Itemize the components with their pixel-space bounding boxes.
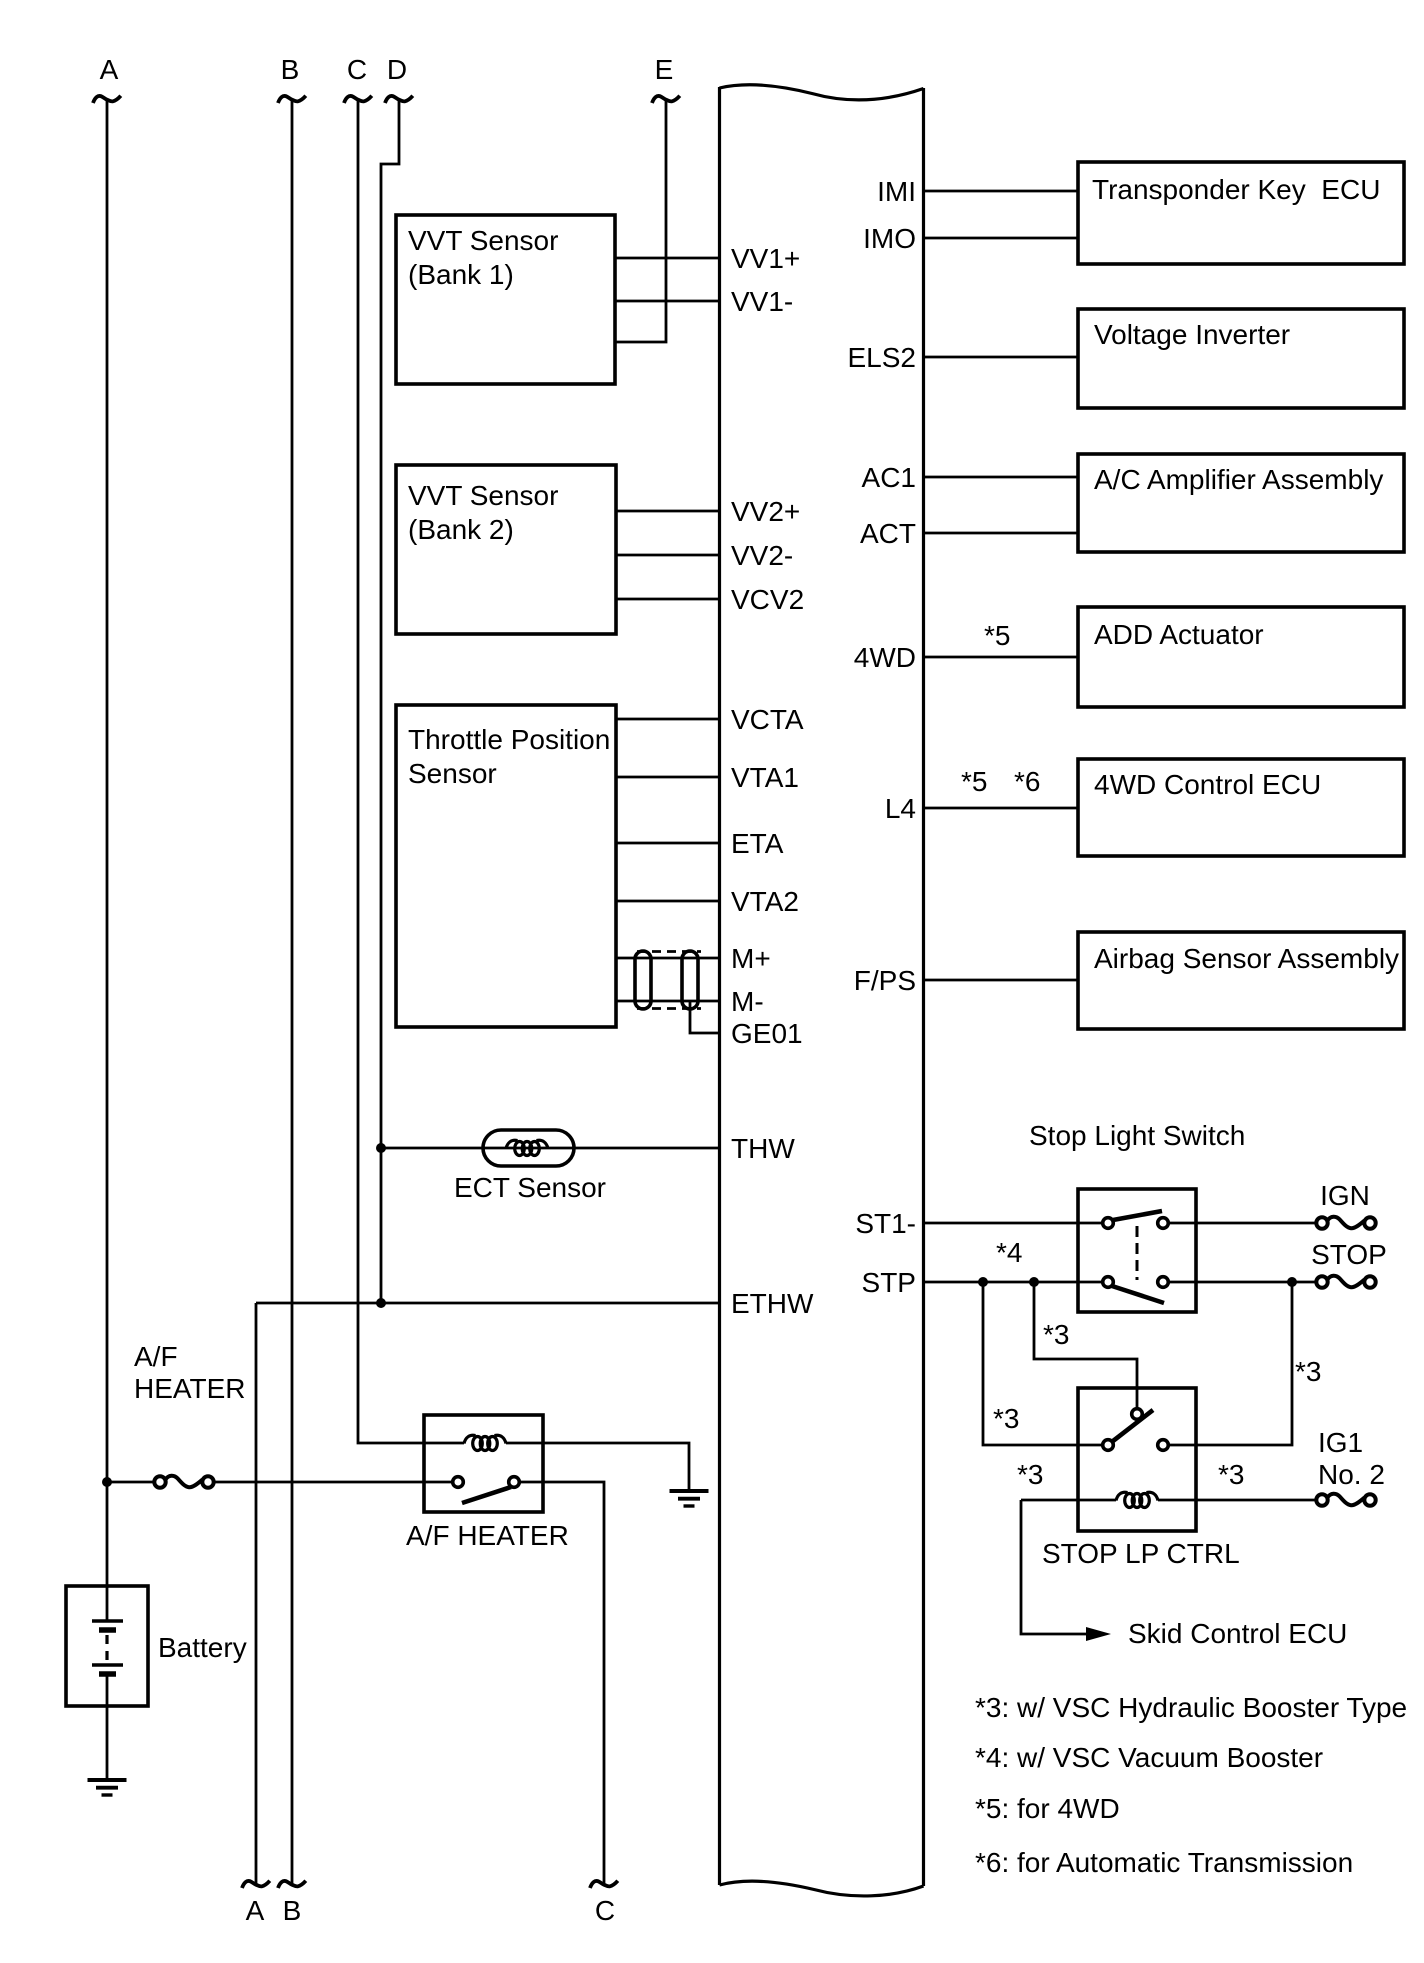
switch blade upper	[1113, 1211, 1162, 1220]
wire A vertical (to battery)	[106, 99, 109, 1621]
svg-text:*3: w/ VSC Hydraulic Booster T: *3: w/ VSC Hydraulic Booster Type	[975, 1692, 1407, 1723]
svg-text:4WD: 4WD	[854, 642, 916, 673]
wire D vertical with jog, down to ETHW junction	[381, 99, 399, 1303]
Stop Light Switch box	[1078, 1189, 1196, 1312]
Transponder Key ECU box	[1078, 162, 1404, 264]
wire B break symbol (bottom)	[278, 1881, 306, 1888]
battery plate short top	[99, 1627, 116, 1633]
wire ACT	[923, 532, 1078, 535]
svg-text:*3: *3	[1043, 1319, 1069, 1350]
wire VV1-	[615, 300, 719, 303]
wire AC1	[923, 476, 1078, 479]
noise filter bead 1	[635, 951, 651, 1009]
svg-text:4WD Control ECU: 4WD Control ECU	[1094, 769, 1321, 800]
relay contact top	[1132, 1409, 1143, 1420]
svg-text:*4: *4	[996, 1237, 1022, 1268]
svg-text:*5: *5	[984, 620, 1010, 651]
svg-text:E: E	[655, 54, 674, 85]
svg-text:(Bank 1): (Bank 1)	[408, 259, 514, 290]
svg-text:ACT: ACT	[860, 518, 916, 549]
svg-text:AC1: AC1	[862, 462, 916, 493]
ground (battery)	[88, 1780, 127, 1795]
svg-text:Transponder Key ECU: Transponder Key ECU	[1092, 174, 1380, 205]
svg-text:VV1+: VV1+	[731, 243, 800, 274]
svg-text:IGN: IGN	[1320, 1180, 1370, 1211]
svg-text:L4: L4	[885, 793, 916, 824]
STOP break symbol	[1316, 1276, 1375, 1288]
svg-text:*3: *3	[993, 1403, 1019, 1434]
svg-text:Battery: Battery	[158, 1632, 247, 1663]
junction THW/D	[376, 1143, 386, 1153]
ECU band torn top edge	[720, 85, 924, 100]
wire C vertical to A/F heater relay coil	[358, 99, 464, 1443]
ground (A/F heater relay)	[670, 1491, 709, 1506]
ECU band left edge	[718, 87, 721, 1885]
svg-text:ELS2: ELS2	[848, 342, 917, 373]
wire VV2+	[616, 510, 719, 513]
VVT Sensor (Bank 1) box	[396, 215, 615, 384]
wire relay switch to C branch	[520, 1482, 604, 1884]
wire A break symbol (bottom)	[242, 1881, 270, 1888]
svg-text:ADD Actuator: ADD Actuator	[1094, 619, 1264, 650]
battery plate long bottom	[92, 1663, 123, 1667]
junction A wire / fuse line	[102, 1477, 112, 1487]
svg-text:*6: *6	[1014, 766, 1040, 797]
wire D break symbol (top)	[385, 96, 413, 103]
wire VTA2	[616, 900, 719, 903]
svg-text:THW: THW	[731, 1133, 795, 1164]
wire from A wire to fuse	[107, 1481, 154, 1484]
switch blade lower	[1112, 1286, 1164, 1303]
Throttle Position Sensor box	[396, 705, 616, 1027]
wire A branch vertical (bottom)	[255, 1303, 258, 1884]
svg-text:VV2+: VV2+	[731, 496, 800, 527]
svg-text:A/C Amplifier Assembly: A/C Amplifier Assembly	[1094, 464, 1383, 495]
svg-text:IMI: IMI	[877, 176, 916, 207]
svg-text:Airbag Sensor Assembly: Airbag Sensor Assembly	[1094, 943, 1399, 974]
wire THW from D wire to ECU	[381, 1147, 719, 1150]
fuse A/F HEATER	[154, 1476, 213, 1488]
svg-text:VVT Sensor: VVT Sensor	[408, 225, 558, 256]
Battery box	[66, 1586, 148, 1706]
wire M+	[616, 957, 719, 960]
wire VV2-	[616, 554, 719, 557]
junction STP branch 2	[1029, 1277, 1039, 1287]
junction ETHW/D	[376, 1298, 386, 1308]
wire IMO	[923, 237, 1078, 240]
relay coil wire left	[1021, 1499, 1116, 1502]
svg-text:*6: for Automatic Transmission: *6: for Automatic Transmission	[975, 1847, 1353, 1878]
svg-text:C: C	[595, 1895, 615, 1926]
svg-text:VV2-: VV2-	[731, 540, 793, 571]
wire IGN from switch	[1169, 1222, 1316, 1225]
wire from fuse to relay switch	[214, 1481, 452, 1484]
svg-text:B: B	[281, 54, 300, 85]
battery dashed middle	[105, 1635, 108, 1662]
svg-text:IG1: IG1	[1318, 1427, 1363, 1458]
A/F HEATER relay coil	[464, 1435, 506, 1450]
wire A break symbol (top)	[93, 96, 121, 103]
wire STP branch1 to relay switch left	[983, 1282, 1102, 1445]
svg-text:HEATER: HEATER	[134, 1373, 246, 1404]
wire B break symbol (top)	[278, 96, 306, 103]
relay blade	[1113, 1410, 1153, 1441]
svg-text:STP: STP	[862, 1267, 916, 1298]
wire relay coil to ground	[506, 1443, 689, 1489]
battery plate long top	[92, 1619, 123, 1623]
Airbag Sensor Assembly box	[1078, 932, 1404, 1029]
svg-text:M-: M-	[731, 986, 764, 1017]
A/C Amplifier Assembly box	[1078, 454, 1404, 552]
4WD Control ECU box	[1078, 759, 1404, 856]
wire E vertical to VVT sensor stub	[615, 99, 666, 342]
relay contact right	[1158, 1440, 1169, 1451]
junction STOP branch	[1287, 1277, 1297, 1287]
relay switch blade	[462, 1487, 511, 1503]
svg-text:A: A	[246, 1895, 265, 1926]
svg-text:VVT Sensor: VVT Sensor	[408, 480, 558, 511]
svg-text:B: B	[283, 1895, 302, 1926]
wire ELS2	[923, 356, 1078, 359]
svg-text:(Bank 2): (Bank 2)	[408, 514, 514, 545]
svg-text:VTA2: VTA2	[731, 886, 799, 917]
IG1 No.2 break symbol	[1316, 1494, 1375, 1506]
wire ETHW from A branch to ECU	[256, 1302, 719, 1305]
wire VTA1	[616, 776, 719, 779]
switch contact lower left	[1103, 1277, 1114, 1288]
svg-text:ETHW: ETHW	[731, 1288, 814, 1319]
wire coil to IG1	[1158, 1499, 1316, 1502]
battery plate short bottom	[99, 1671, 116, 1677]
wire battery negative to ground	[106, 1676, 109, 1778]
Voltage Inverter box	[1078, 309, 1404, 408]
ECU band right edge	[922, 88, 925, 1886]
svg-text:ECT Sensor: ECT Sensor	[454, 1172, 606, 1203]
wire E break symbol (top)	[652, 96, 680, 103]
svg-text:Throttle Position: Throttle Position	[408, 724, 610, 755]
noise filter bead 2	[682, 951, 698, 1009]
switch link dashed	[1136, 1226, 1139, 1280]
svg-text:D: D	[387, 54, 407, 85]
svg-text:*5: for 4WD: *5: for 4WD	[975, 1793, 1120, 1824]
wire VCV2	[616, 598, 719, 601]
svg-text:*3: *3	[1017, 1459, 1043, 1490]
svg-text:Voltage Inverter: Voltage Inverter	[1094, 319, 1290, 350]
ECT Sensor coil	[506, 1140, 548, 1155]
svg-text:VCV2: VCV2	[731, 584, 804, 615]
svg-text:Sensor: Sensor	[408, 758, 497, 789]
relay contact left	[1103, 1440, 1114, 1451]
svg-text:F/PS: F/PS	[854, 965, 916, 996]
svg-text:*5: *5	[961, 766, 987, 797]
noise filter shield dashed lines	[637, 950, 701, 953]
svg-text:No. 2: No. 2	[1318, 1459, 1385, 1490]
ECT Sensor thermistor body	[483, 1130, 574, 1166]
wire B vertical	[291, 99, 294, 1884]
IGN break symbol	[1316, 1217, 1375, 1229]
svg-text:IMO: IMO	[863, 223, 916, 254]
relay switch contact left	[453, 1477, 464, 1488]
wire L4	[923, 807, 1078, 810]
wire GE01 step from M-	[690, 1001, 719, 1033]
wire ETA	[616, 842, 719, 845]
wire F/PS	[923, 979, 1078, 982]
STOP LP CTRL relay box	[1078, 1388, 1196, 1531]
svg-text:VCTA: VCTA	[731, 704, 804, 735]
switch contact lower right	[1158, 1277, 1169, 1288]
wire VCTA	[616, 718, 719, 721]
wire 4WD	[923, 656, 1078, 659]
wire STOP from switch	[1169, 1281, 1316, 1284]
A/F HEATER relay box	[424, 1415, 543, 1512]
arrowhead	[1086, 1627, 1111, 1641]
svg-text:*4: w/ VSC Vacuum Booster: *4: w/ VSC Vacuum Booster	[975, 1742, 1323, 1773]
svg-text:A: A	[100, 54, 119, 85]
wire to Skid Control ECU	[1021, 1500, 1086, 1634]
svg-text:*3: *3	[1295, 1356, 1321, 1387]
svg-text:Stop Light Switch: Stop Light Switch	[1029, 1120, 1245, 1151]
relay switch contact right	[509, 1477, 520, 1488]
wire STOP branch down to relay switch right	[1169, 1282, 1292, 1445]
ECU band torn bottom edge	[720, 1881, 924, 1896]
svg-text:M+: M+	[731, 943, 771, 974]
wire VV1+	[615, 257, 719, 260]
switch contact upper right	[1158, 1218, 1169, 1229]
wire STP to switch	[923, 1281, 1102, 1284]
svg-text:Skid Control ECU: Skid Control ECU	[1128, 1618, 1347, 1649]
svg-text:A/F: A/F	[134, 1341, 178, 1372]
wire IMI	[923, 190, 1078, 193]
svg-text:*3: *3	[1218, 1459, 1244, 1490]
svg-text:C: C	[347, 54, 367, 85]
svg-text:VTA1: VTA1	[731, 762, 799, 793]
wire M-	[616, 1000, 719, 1003]
svg-text:ST1-: ST1-	[855, 1208, 916, 1239]
wire ST1- to switch	[923, 1222, 1102, 1225]
svg-text:ETA: ETA	[731, 828, 784, 859]
svg-text:VV1-: VV1-	[731, 286, 793, 317]
junction STP branch 1	[978, 1277, 988, 1287]
switch contact upper left	[1103, 1218, 1114, 1229]
wire C break symbol (bottom)	[590, 1881, 618, 1888]
svg-text:STOP LP CTRL: STOP LP CTRL	[1042, 1538, 1240, 1569]
wire STP branch2 to relay switch top	[1034, 1282, 1137, 1408]
svg-text:A/F HEATER: A/F HEATER	[406, 1520, 569, 1551]
VVT Sensor (Bank 2) box	[396, 465, 616, 634]
relay coil	[1116, 1492, 1158, 1507]
ADD Actuator box	[1078, 607, 1404, 707]
svg-text:STOP: STOP	[1311, 1239, 1387, 1270]
wire C break symbol (top)	[344, 96, 372, 103]
svg-text:GE01: GE01	[731, 1018, 803, 1049]
